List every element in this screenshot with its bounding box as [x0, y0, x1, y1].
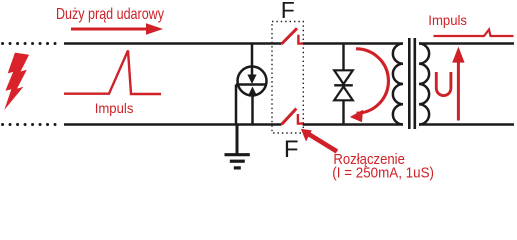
waveform: output impulse — [434, 30, 514, 37]
current source I1: top lead — [251, 44, 254, 76]
fuse F bottom: open blade — [282, 109, 297, 125]
arrow: surge current direction — [71, 28, 149, 31]
fuse enclosure: dotted box — [272, 22, 303, 134]
wire: left branch from source bar to bottom line — [235, 85, 238, 126]
TVS diode D1: lower triangle — [334, 87, 353, 101]
wire: bottom line left segment — [64, 123, 282, 126]
wire: top line left segment — [64, 42, 282, 45]
transformer T1: core line 1 — [408, 38, 411, 129]
lightning bolt (surge symbol) — [4, 53, 29, 110]
TVS diode D1: center bar — [334, 84, 353, 86]
current source I1: top arrowhead — [247, 75, 256, 85]
transformer T1: secondary winding — [419, 44, 429, 125]
wire: top line dotted lead-in — [3, 42, 61, 45]
svg-text:F: F — [284, 136, 299, 163]
wire: secondary top — [419, 42, 514, 45]
wire: top line right segment — [303, 42, 404, 45]
TVS diode D1: bottom lead — [342, 100, 344, 124]
waveform: input impulse — [64, 51, 161, 95]
transformer T1: core line 2 — [413, 38, 416, 129]
svg-text:(I = 250mA, 1uS): (I = 250mA, 1uS) — [332, 164, 434, 181]
current source I1: circle — [238, 67, 267, 96]
annotation arrow: circulating current arc — [356, 49, 388, 113]
TVS diode D1: upper triangle — [334, 70, 353, 84]
wire: secondary bottom — [419, 123, 514, 126]
svg-text:Impuls: Impuls — [95, 100, 134, 116]
ground: stem — [236, 125, 239, 154]
arrow: U voltage direction — [457, 60, 460, 121]
ground: bar 3 — [234, 166, 241, 169]
ground: bar 2 — [230, 160, 245, 163]
svg-text:Duży prąd udarowy: Duży prąd udarowy — [56, 6, 164, 23]
transformer T1: primary winding — [393, 44, 403, 125]
fuse F top: open blade — [282, 28, 298, 44]
svg-text:Impuls: Impuls — [428, 12, 467, 28]
svg-text:F: F — [281, 0, 295, 23]
current source I1: center bar — [236, 83, 266, 86]
current source I1: bottom lead — [251, 96, 254, 125]
TVS diode D1: top lead — [342, 44, 344, 71]
wire: bottom line dotted lead-in — [3, 123, 61, 126]
wire: bottom line right segment — [303, 123, 404, 126]
annotation arrow: to bottom fuse — [309, 134, 338, 152]
fuse F bottom: contact stub — [298, 114, 303, 124]
label: U (output voltage) — [436, 72, 451, 96]
ground: bar 1 — [225, 153, 250, 156]
current source I1: bottom arrowhead — [248, 87, 257, 97]
fuse F top: contact stub — [298, 35, 302, 44]
